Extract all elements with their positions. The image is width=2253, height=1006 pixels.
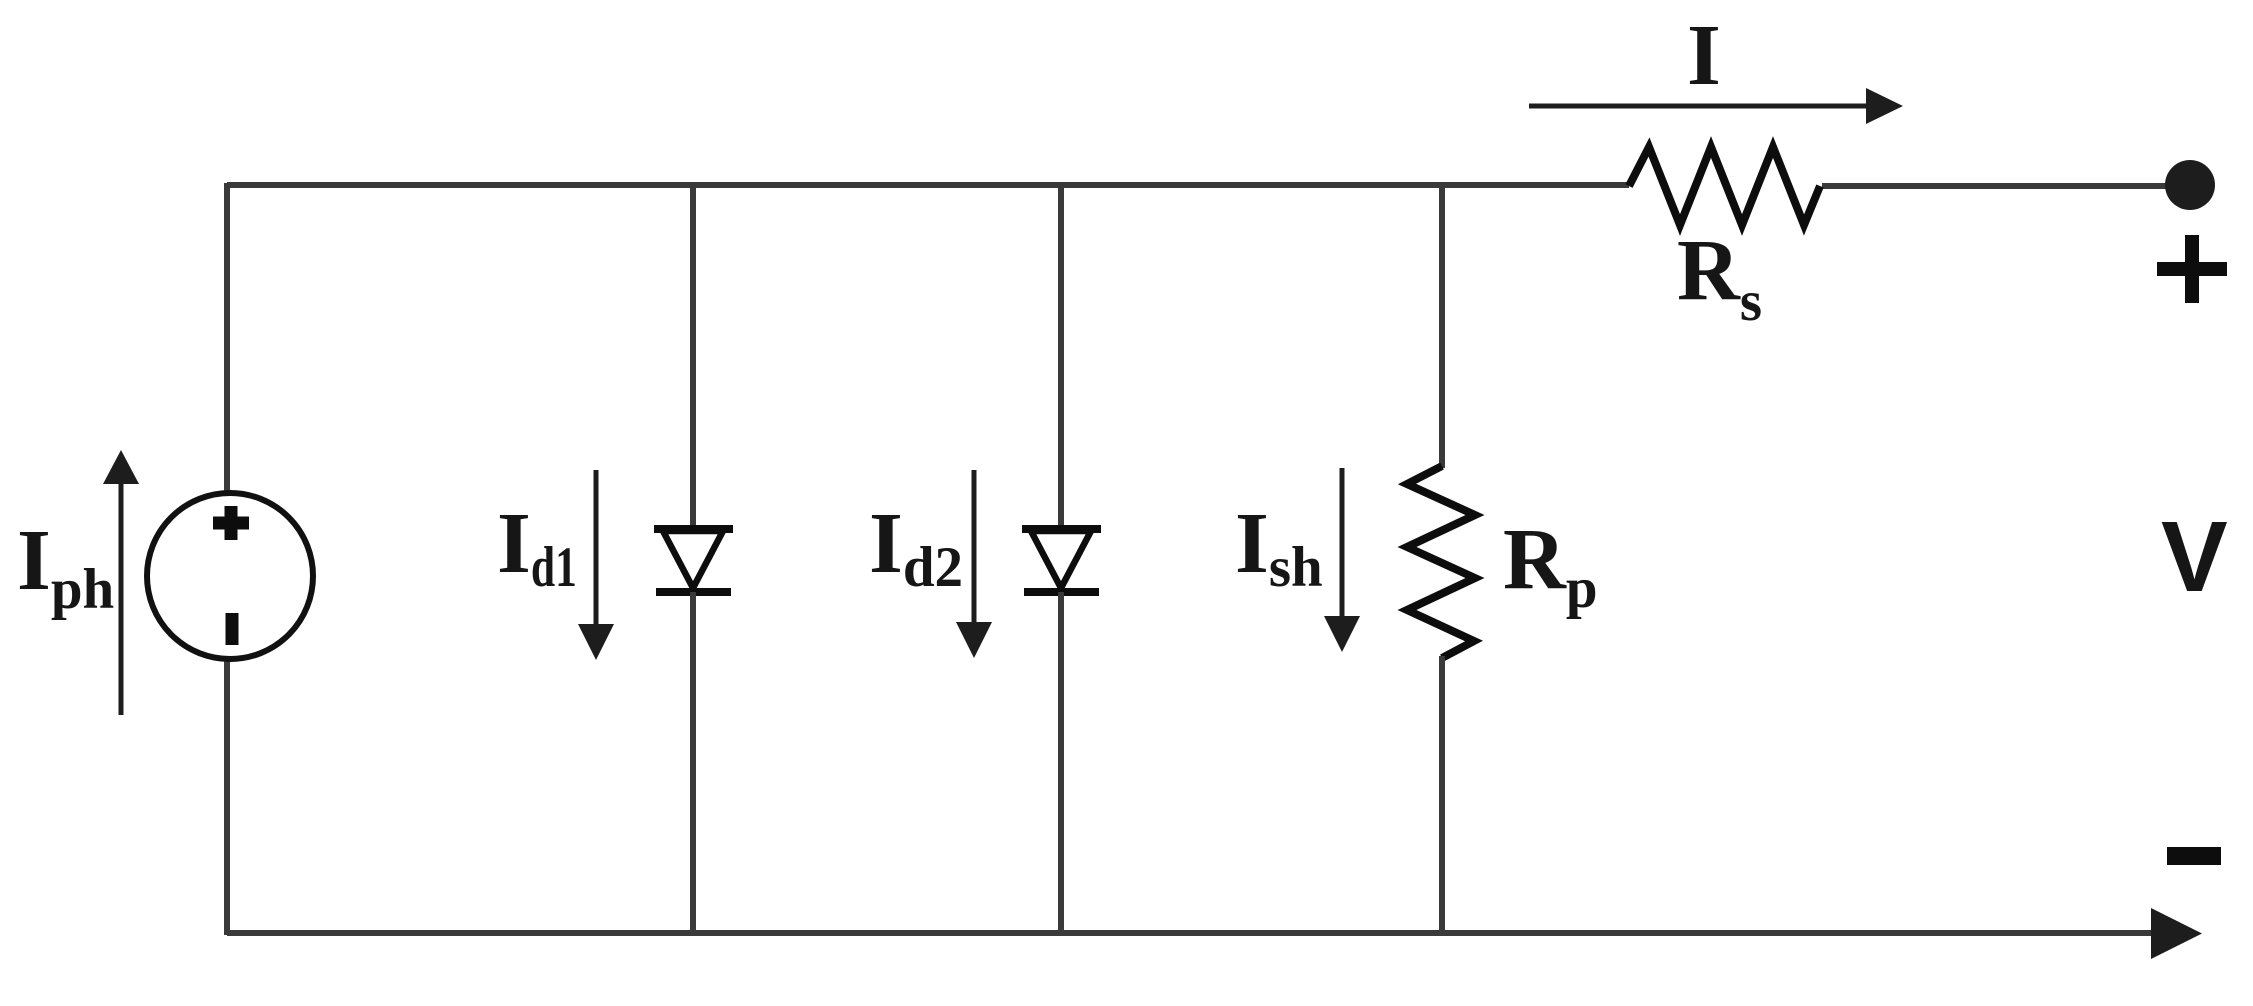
wire: left rail vertical lower (source to bottom rail): [224, 658, 230, 935]
minus terminal mark: [2167, 847, 2221, 865]
wire: bottom rail: [227, 930, 2155, 936]
svg-text:Id2: Id2: [869, 494, 963, 599]
minus mark inside source (vertical tick): [226, 613, 239, 645]
resistor Rp (vertical zigzag): [1407, 466, 1475, 658]
wire: resistor Rp branch lower: [1439, 656, 1445, 935]
arrow: Iph current direction (up): [103, 450, 139, 715]
wire: top rail right segment (Rs to output node): [1822, 183, 2190, 189]
arrowhead: bottom rail output arrow: [2151, 908, 2202, 959]
svg-text:V: V: [2161, 501, 2228, 613]
diode D1: [654, 529, 733, 592]
wire: diode D1 branch upper: [690, 183, 696, 531]
current source Iph (circle symbol): [147, 493, 313, 659]
arrow: Id1 current direction (down): [578, 470, 614, 660]
svg-text:Ish: Ish: [1235, 494, 1323, 599]
plus mark inside source: [213, 517, 249, 530]
svg-text:Rp: Rp: [1503, 510, 1598, 620]
wire: top rail left segment (node A to Rs): [227, 182, 1629, 188]
plus terminal mark: [2157, 235, 2227, 303]
wire: diode D2 branch lower: [1058, 592, 1064, 935]
resistor Rs (horizontal zigzag): [1629, 147, 1820, 225]
wire: diode D1 branch lower: [690, 592, 696, 935]
arrow: Ish current direction (down): [1324, 468, 1360, 652]
svg-text:Id1: Id1: [497, 494, 577, 599]
node: positive output terminal (dot): [2165, 160, 2215, 210]
arrow: Id2 current direction (down): [956, 470, 992, 658]
wire: diode D2 branch upper: [1058, 183, 1064, 531]
svg-text:Rs: Rs: [1677, 221, 1762, 333]
svg-text:I: I: [1687, 6, 1721, 103]
wire: resistor Rp branch upper: [1439, 183, 1445, 468]
diode D2: [1022, 529, 1101, 592]
svg-text:Iph: Iph: [17, 511, 114, 621]
wire: left rail vertical upper (top rail to source): [224, 183, 230, 494]
arrow: output current I (right): [1529, 88, 1903, 124]
